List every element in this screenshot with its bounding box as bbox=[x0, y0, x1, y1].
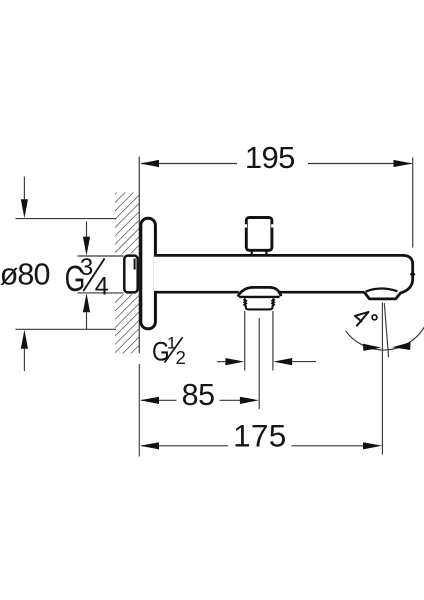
svg-text:4: 4 bbox=[95, 273, 109, 301]
svg-text:2: 2 bbox=[176, 347, 186, 368]
svg-text:3: 3 bbox=[80, 254, 94, 281]
svg-text:195: 195 bbox=[245, 140, 295, 175]
svg-text:175: 175 bbox=[233, 418, 286, 454]
svg-text:ø80: ø80 bbox=[0, 257, 50, 291]
svg-text:85: 85 bbox=[182, 378, 215, 412]
